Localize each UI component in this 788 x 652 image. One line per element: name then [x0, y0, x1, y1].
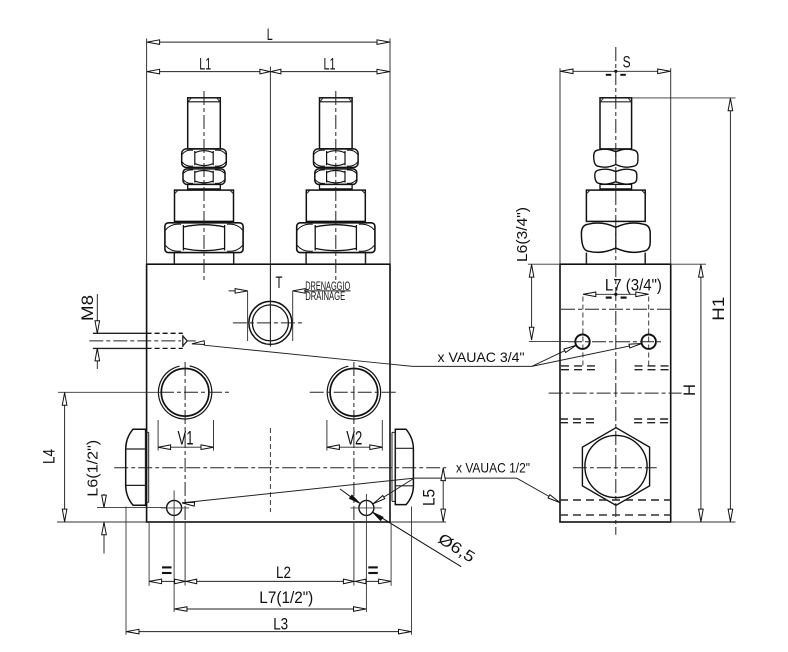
svg-text:H: H [680, 384, 699, 396]
V1 label [178, 429, 194, 450]
x VAUAC 3/4 label [438, 349, 525, 365]
DRENAGGIO underline [304, 290, 351, 292]
dimension V1 line with arrows [158, 420, 213, 451]
dimension row L7(1/2) [174, 607, 366, 612]
svg-text:L7 (3/4"): L7 (3/4") [605, 275, 662, 294]
H1 label [709, 297, 728, 321]
port V2 bore circle [330, 369, 378, 417]
H top extension [671, 263, 706, 265]
leader x VAUAC 1/2 with arrows [182, 478, 560, 506]
dimension H line with arrows [699, 264, 704, 522]
dimension row L3 [126, 507, 412, 635]
M8 label [78, 295, 97, 321]
dimension L1 left label [199, 54, 211, 73]
dimension L7(3/4) line with arrows [583, 292, 649, 298]
svg-text:M8: M8 [78, 295, 97, 321]
T drain port circles [249, 301, 292, 344]
svg-text:L2: L2 [276, 563, 291, 582]
side view block body outline [560, 264, 671, 522]
T port dimension bracket [229, 289, 306, 341]
L7 (3/4") label [605, 275, 662, 294]
leader diameter 6.5 with filled arrows [340, 489, 461, 567]
DRENAGGIO label [305, 281, 350, 293]
V1 port axis [184, 362, 186, 586]
bottom hex plug hexagon [582, 428, 649, 506]
leader x VAUAC 3/4 with arrows [192, 341, 642, 367]
right side plug (hex, side view) [392, 429, 413, 504]
svg-text:x VAUAC 3/4": x VAUAC 3/4" [438, 349, 525, 365]
H1 top extension line [632, 97, 736, 99]
svg-text:V2: V2 [346, 429, 362, 450]
hidden line bottom 2 [560, 514, 671, 516]
thread hidden band lower left [560, 419, 599, 423]
L7(1/2") label [259, 588, 313, 607]
bottom hex plug circle [585, 435, 647, 497]
side ports horizontal centerline [568, 341, 664, 343]
bottom mounting hole left (Ø6.5) [161, 491, 189, 613]
side block bottom extension [671, 521, 736, 523]
svg-text:DRAINAGE: DRAINAGE [305, 291, 345, 303]
L4 label [40, 449, 59, 464]
hidden extension left port (dashed vertical) [582, 297, 584, 368]
L3 label [273, 614, 288, 633]
M8 stud centerline [89, 340, 181, 342]
dimension L1 left line with arrows [147, 67, 390, 265]
svg-text:L6(3/4"): L6(3/4") [514, 207, 531, 262]
port V1 thread arc [158, 366, 211, 419]
thread hidden band upper left [561, 366, 598, 370]
side port circle left [575, 335, 589, 349]
svg-text:L4: L4 [40, 449, 59, 464]
bottom hex plug centerline [573, 467, 657, 469]
front view block body outline [147, 264, 390, 522]
relief valve cartridge (side view) [581, 98, 650, 264]
dimension L (overall width) line with arrows and extension lines [147, 39, 390, 265]
S label [623, 53, 631, 72]
svg-text:L1: L1 [324, 54, 336, 73]
equals symbol left [162, 567, 172, 573]
svg-text:L3: L3 [273, 614, 288, 633]
L6(3/4") label [514, 207, 531, 262]
V2 port axis [353, 362, 355, 586]
dimension L5 with arrows [441, 468, 446, 522]
svg-text:V1: V1 [178, 429, 194, 450]
svg-text:L7(1/2"): L7(1/2") [259, 588, 313, 607]
relief valve cartridge 1 (left) [165, 91, 243, 281]
dimension L4 line with arrows [62, 392, 67, 522]
dimension M8 arrows [95, 294, 100, 369]
side view centerline [615, 47, 617, 535]
dimension V2 line with arrows [327, 420, 382, 451]
hidden extension right port (dashed vertical) [648, 297, 650, 368]
side mid horizontal centerline [549, 392, 682, 394]
dimension L6(1/2) with arrows [97, 494, 166, 554]
DRAINAGE label [305, 291, 345, 303]
T port label [276, 273, 283, 292]
dimension S line with arrows [560, 68, 671, 264]
M8 stud (side) [93, 333, 196, 348]
T port centerline cross [233, 264, 303, 346]
svg-text:L: L [267, 25, 273, 44]
L5 label [420, 489, 439, 506]
svg-text:H1: H1 [709, 297, 728, 321]
x VAUAC 1/2 label [456, 459, 530, 475]
svg-text:L5: L5 [420, 489, 439, 506]
diameter 6.5 label [435, 531, 478, 567]
V2 label [346, 429, 362, 450]
dimension L6(3/4) with arrows [528, 264, 568, 341]
H label [680, 384, 699, 396]
plugs horizontal centerline [114, 467, 446, 469]
equals symbol right [368, 567, 378, 573]
relief valve cartridge 2 (right) [297, 91, 375, 281]
bottom mounting hole right (Ø6.5) [350, 494, 381, 612]
svg-text:T: T [276, 273, 283, 292]
svg-text:S: S [623, 53, 631, 72]
svg-text:L1: L1 [199, 54, 211, 73]
dimension L1 right label [324, 54, 336, 73]
port V2 thread arc [327, 366, 380, 419]
dimension H1 line with arrows [728, 98, 733, 522]
thread hidden band upper right [635, 366, 671, 370]
L6(1/2") label [85, 440, 102, 497]
svg-text:x VAUAC 1/2": x VAUAC 1/2" [456, 459, 530, 475]
svg-text:L6(1/2"): L6(1/2") [85, 440, 102, 497]
port V1 bore circle [161, 369, 209, 417]
front centre hidden axis (dashed) [269, 428, 271, 512]
L2 label [276, 563, 291, 582]
hidden line bottom 1 [560, 499, 671, 501]
side upper horizontal centerline [561, 308, 671, 310]
dimension L label [267, 25, 273, 44]
side port circle right [642, 335, 656, 349]
block bottom edge extensions [57, 521, 446, 523]
thread hidden band lower right [634, 419, 671, 423]
dimension row L2 and equals line [149, 523, 391, 586]
left side plug (hex, side view) [126, 429, 149, 505]
V-ports horizontal centerline [58, 391, 397, 393]
